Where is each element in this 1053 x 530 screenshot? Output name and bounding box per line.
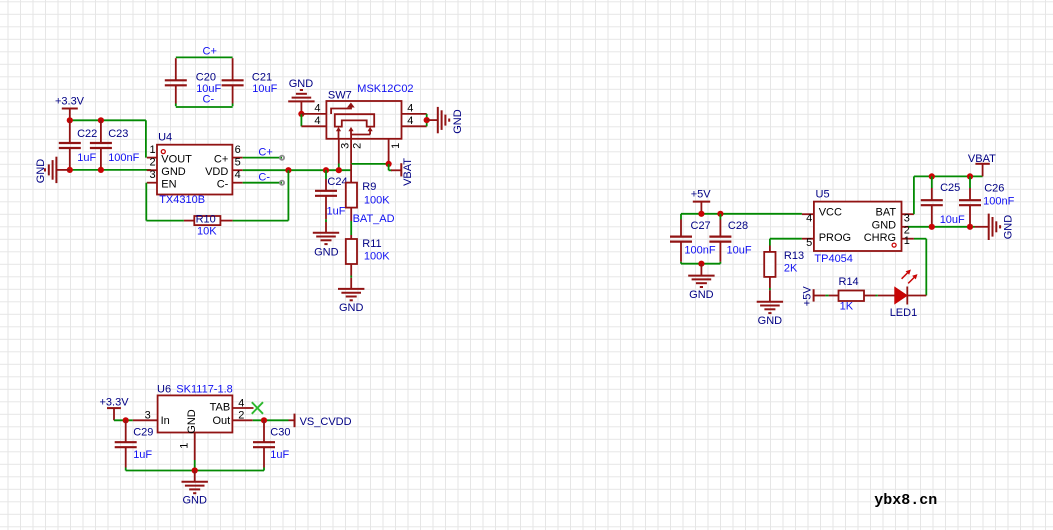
open wire end xyxy=(280,181,284,185)
capacitor C22 leads xyxy=(69,120,71,170)
svg-text:R13: R13 xyxy=(784,250,804,262)
U6 pin 2 stub Out xyxy=(232,419,252,421)
capacitor C24 leads xyxy=(325,170,327,233)
wire GND rail to U4 pin2 xyxy=(70,169,151,171)
svg-text:C20: C20 xyxy=(196,72,216,84)
SW7 actuator line xyxy=(331,107,351,114)
U5 CHRG marker circle xyxy=(892,243,896,247)
svg-text:GND: GND xyxy=(289,78,314,90)
svg-text:U6: U6 xyxy=(157,383,171,395)
wire down to R10 right xyxy=(287,170,289,220)
power flag +5V rotated xyxy=(814,289,826,301)
SW7 contact tie bar xyxy=(351,134,370,136)
capacitor C26 leads xyxy=(969,176,971,226)
wire SW7 left pins tie xyxy=(300,114,302,126)
capacitor C27 xyxy=(670,237,692,242)
svg-text:BAT_AD: BAT_AD xyxy=(353,213,395,225)
capacitor C28 leads xyxy=(719,214,721,264)
U4 pin 2 stub xyxy=(147,169,157,171)
resistor R10 leads xyxy=(184,220,233,222)
svg-text:R9: R9 xyxy=(362,181,376,193)
SW7 right pin lower stub xyxy=(402,125,427,127)
wire R10 right to branch xyxy=(233,220,289,222)
wire C- bottom rail xyxy=(176,106,233,108)
wire tick +5V-R14 xyxy=(825,295,828,297)
capacitor C22 xyxy=(59,143,81,148)
svg-text:U4: U4 xyxy=(158,131,172,143)
junction C30 top xyxy=(261,417,267,423)
svg-text:ybx8.cn: ybx8.cn xyxy=(874,492,937,509)
svg-text:TX4310B: TX4310B xyxy=(159,194,205,206)
wire U5 GND rail xyxy=(909,226,975,228)
svg-text:1: 1 xyxy=(149,144,155,156)
svg-text:TAB: TAB xyxy=(210,402,231,414)
svg-text:VCC: VCC xyxy=(819,207,842,219)
wire CHRG out xyxy=(914,238,926,240)
svg-text:C+: C+ xyxy=(214,154,228,166)
svg-text:U5: U5 xyxy=(816,189,830,201)
U5 pin 1 stub xyxy=(902,238,914,240)
SW7 right pin upper stub xyxy=(402,113,427,115)
ground below U6 xyxy=(182,482,208,493)
svg-text:1uF: 1uF xyxy=(77,152,96,164)
svg-text:4: 4 xyxy=(314,115,320,127)
svg-text:GND: GND xyxy=(1002,215,1014,240)
ground symbol right of SW7 xyxy=(438,107,449,133)
resistor R9 bottom lead xyxy=(350,208,352,221)
svg-text:GND: GND xyxy=(452,109,464,134)
U4 pin 3 stub xyxy=(147,182,157,184)
svg-text:+5V: +5V xyxy=(802,286,814,307)
svg-text:VBAT: VBAT xyxy=(402,158,414,186)
svg-text:VBAT: VBAT xyxy=(968,153,996,165)
svg-text:C25: C25 xyxy=(940,182,960,194)
SW7 slider outline xyxy=(335,114,374,126)
ground below C24 xyxy=(313,233,339,244)
power flag +3.3V xyxy=(62,109,78,121)
U6 pin 4 stub TAB xyxy=(232,407,253,409)
capacitor C20 leads xyxy=(175,58,177,106)
svg-text:BAT: BAT xyxy=(876,207,897,219)
net flag VS_CVDD xyxy=(289,414,295,428)
switch SW7 body xyxy=(326,101,401,139)
capacitor C29 leads xyxy=(125,420,127,470)
svg-text:100nF: 100nF xyxy=(983,196,1014,208)
wire down to LED cathode xyxy=(925,239,927,296)
SW7 left pin upper stub xyxy=(301,113,326,115)
U4 pin 6 stub xyxy=(232,157,242,159)
op-amp U4 body xyxy=(157,145,232,195)
ground stem below U6 xyxy=(194,471,196,482)
wire SW7 pin3 to rail xyxy=(338,164,340,171)
wire down to U4 pin1 xyxy=(145,120,147,157)
svg-text:VS_CVDD: VS_CVDD xyxy=(300,416,352,428)
svg-text:R10: R10 xyxy=(196,214,216,226)
junction SW7 right GND xyxy=(424,117,430,123)
svg-text:GND: GND xyxy=(314,246,339,258)
junction C26 top xyxy=(967,173,973,179)
svg-text:C-: C- xyxy=(258,171,270,183)
svg-text:100K: 100K xyxy=(364,251,390,263)
junction SW7 pin3 / rail xyxy=(336,167,342,173)
svg-text:10uF: 10uF xyxy=(940,214,965,226)
svg-text:4: 4 xyxy=(314,103,320,115)
svg-text:In: In xyxy=(161,415,170,427)
LED1 triangle xyxy=(895,287,907,303)
svg-text:100K: 100K xyxy=(364,195,390,207)
svg-text:1: 1 xyxy=(179,443,191,449)
capacitor C20 xyxy=(165,80,187,85)
svg-text:4: 4 xyxy=(235,169,241,181)
svg-text:VOUT: VOUT xyxy=(161,154,192,166)
resistor R13 bottom lead xyxy=(769,277,771,302)
junction GND below caps xyxy=(698,261,704,267)
power flag +3.3V at U6 xyxy=(107,408,121,420)
ground stem below C27/C28 xyxy=(700,264,702,276)
wire Out to VS_CVDD xyxy=(253,419,289,421)
wire PROG to R13 xyxy=(770,238,802,240)
capacitor C21 leads xyxy=(232,58,234,106)
svg-text:R11: R11 xyxy=(362,238,381,250)
SW7 pin 3 shaft xyxy=(338,139,340,164)
SW7 contact arrow 1 xyxy=(336,127,341,139)
svg-text:GND: GND xyxy=(182,494,207,506)
wire BAT_AD between R9 and R11 xyxy=(350,221,352,235)
ground stem right of U5 xyxy=(975,226,989,228)
svg-text:C23: C23 xyxy=(108,128,128,140)
wire +5V rail to U5 VCC xyxy=(681,213,802,215)
junction C25 bottom xyxy=(929,224,935,230)
junction U6 ground xyxy=(192,467,198,473)
capacitor C26 xyxy=(959,200,981,205)
svg-text:1uF: 1uF xyxy=(133,449,152,461)
resistor R11 bottom lead xyxy=(350,264,352,289)
ground below R13 xyxy=(757,302,783,313)
wire EN down xyxy=(145,183,147,221)
wire BAT up xyxy=(913,176,915,214)
U5 pin 5 stub xyxy=(802,238,814,240)
svg-text:10uF: 10uF xyxy=(727,245,752,257)
net flag VBAT stem xyxy=(389,163,402,176)
no-connect X on TAB xyxy=(252,402,263,414)
svg-text:1uF: 1uF xyxy=(327,205,346,217)
ground symbol right of U5 xyxy=(989,214,1000,240)
svg-text:+3.3V: +3.3V xyxy=(55,95,85,107)
svg-text:2: 2 xyxy=(352,143,364,149)
junction VDD/R10 branch xyxy=(285,167,291,173)
U5 pin 4 stub xyxy=(802,213,814,215)
svg-text:GND: GND xyxy=(161,166,186,178)
junction C29 top xyxy=(123,417,129,423)
U6 pin1 wire xyxy=(194,460,196,471)
wire tick R14-LED xyxy=(876,295,878,297)
svg-text:3: 3 xyxy=(904,212,910,224)
SW7 actuator arrowhead xyxy=(347,103,355,108)
svg-text:4: 4 xyxy=(407,103,413,115)
svg-text:1: 1 xyxy=(904,235,910,247)
SW7 contact arrow 2 xyxy=(348,127,353,135)
capacitor C27 leads xyxy=(680,214,682,264)
svg-text:TP4054: TP4054 xyxy=(814,253,853,265)
svg-text:2: 2 xyxy=(238,410,244,422)
svg-text:2: 2 xyxy=(149,156,155,168)
svg-text:100nF: 100nF xyxy=(108,152,139,164)
resistor R14 leads xyxy=(829,295,876,297)
svg-text:C24: C24 xyxy=(327,176,347,188)
svg-text:5: 5 xyxy=(235,156,241,168)
ground symbol above SW7 xyxy=(288,90,314,101)
U5 pin 3 stub xyxy=(902,213,914,215)
wire C+ from pin6 xyxy=(243,157,282,159)
svg-text:VDD: VDD xyxy=(205,166,228,178)
wire +3.3V rail to U4 xyxy=(70,119,146,121)
svg-text:C-: C- xyxy=(217,179,229,191)
U4 pin1 marker circle xyxy=(161,150,165,154)
junction C26 bottom xyxy=(967,224,973,230)
SW7 pin 1 shaft xyxy=(388,139,390,164)
wire +3.3V to U6 In xyxy=(114,419,133,421)
U6 pin 1 shaft xyxy=(194,433,196,461)
svg-text:2K: 2K xyxy=(784,263,798,275)
SW7 contact arrow 3 xyxy=(368,127,373,135)
junction C28 top xyxy=(717,211,723,217)
resistor R13 top lead xyxy=(769,239,771,252)
wire to R10 left xyxy=(146,220,184,222)
resistor R9 xyxy=(346,183,357,208)
wire SW7 pin2 to VBAT xyxy=(351,163,389,165)
LED1 cathode bar xyxy=(906,287,908,305)
junction C24 top xyxy=(323,167,329,173)
svg-text:GND: GND xyxy=(758,315,783,327)
svg-text:R14: R14 xyxy=(839,276,859,288)
svg-text:1: 1 xyxy=(390,143,402,149)
capacitor C29 xyxy=(115,442,137,447)
svg-text:GND: GND xyxy=(689,289,714,301)
wire SW7 right pins tie xyxy=(426,114,428,126)
svg-text:4: 4 xyxy=(806,213,812,225)
ground stem right of SW7 xyxy=(427,119,438,121)
resistor R11 top lead xyxy=(350,235,352,239)
wire C- from pin4 xyxy=(243,182,282,184)
IC U5 body xyxy=(814,202,902,251)
svg-text:100nF: 100nF xyxy=(684,245,715,257)
svg-text:6: 6 xyxy=(235,144,241,156)
junction +5V stem xyxy=(698,211,704,217)
U5 pin 2 stub xyxy=(902,226,909,228)
LED1 anode lead xyxy=(878,295,895,297)
LED1 emission arrow 1 xyxy=(902,270,911,279)
wire U6 ground rail xyxy=(126,470,264,472)
svg-text:+5V: +5V xyxy=(691,189,712,201)
power flag +5V xyxy=(693,202,710,214)
svg-text:1K: 1K xyxy=(840,300,854,312)
svg-text:C26: C26 xyxy=(984,183,1004,195)
LED1 cathode lead xyxy=(907,295,926,297)
capacitor C25 leads xyxy=(931,176,933,226)
resistor R9 top lead xyxy=(350,164,352,183)
junction SW7 left pins xyxy=(298,111,304,117)
svg-text:3: 3 xyxy=(339,143,351,149)
svg-text:4: 4 xyxy=(238,398,244,410)
svg-text:10K: 10K xyxy=(197,226,217,238)
svg-text:GND: GND xyxy=(339,302,364,314)
svg-text:Out: Out xyxy=(212,415,230,427)
svg-text:MSK12C02: MSK12C02 xyxy=(357,83,413,95)
resistor R11 xyxy=(346,239,357,264)
ground stem (left of C22) xyxy=(56,169,69,171)
capacitor C23 leads xyxy=(100,120,102,170)
wire C+ top rail xyxy=(176,56,233,58)
capacitor C21 xyxy=(222,80,244,85)
svg-text:GND: GND xyxy=(872,219,897,231)
svg-text:LED1: LED1 xyxy=(890,307,918,319)
resistor R13 xyxy=(764,252,775,277)
capacitor C25 xyxy=(921,200,943,205)
U4 pin 5 stub xyxy=(232,169,242,171)
svg-text:EN: EN xyxy=(161,179,176,191)
svg-text:C29: C29 xyxy=(133,426,153,438)
junction C25 top xyxy=(929,173,935,179)
ground stem above SW7 xyxy=(300,101,302,114)
svg-text:10uF: 10uF xyxy=(252,83,277,95)
IC U6 body xyxy=(158,395,233,432)
junction +3.3V/C22 xyxy=(67,117,73,123)
resistor R10 xyxy=(194,216,220,225)
junction C22 bottom / GND xyxy=(67,167,73,173)
svg-text:4: 4 xyxy=(407,115,413,127)
svg-text:C+: C+ xyxy=(258,147,272,159)
wire C27-C28 bottom tie xyxy=(681,263,720,265)
LED1 emission arrow 2 xyxy=(908,274,917,283)
svg-text:SW7: SW7 xyxy=(328,90,352,102)
wire VBAT top rail xyxy=(914,175,983,177)
ground below R11 xyxy=(338,289,364,300)
svg-text:GND: GND xyxy=(35,159,47,184)
svg-text:3: 3 xyxy=(145,410,151,422)
svg-text:C-: C- xyxy=(203,94,215,106)
net flag VBAT top xyxy=(975,164,989,177)
svg-text:5: 5 xyxy=(806,237,812,249)
capacitor C28 xyxy=(709,237,731,242)
svg-text:CHRG: CHRG xyxy=(864,232,896,244)
svg-text:3: 3 xyxy=(149,169,155,181)
resistor R14 xyxy=(839,291,865,302)
U4 pin 1 stub xyxy=(147,157,157,159)
svg-text:C21: C21 xyxy=(252,72,272,84)
junction VBAT / SW7 pin1 xyxy=(386,161,392,167)
svg-text:C28: C28 xyxy=(728,220,748,232)
U6 pin 3 stub In xyxy=(133,419,158,421)
svg-text:C27: C27 xyxy=(691,220,711,232)
ground symbol left xyxy=(45,157,56,183)
capacitor C30 leads xyxy=(263,420,265,470)
svg-text:C30: C30 xyxy=(270,426,290,438)
svg-text:+3.3V: +3.3V xyxy=(100,397,130,409)
svg-text:C22: C22 xyxy=(77,128,97,140)
wire VDD rail xyxy=(243,169,352,171)
ground below C27/C28 xyxy=(688,276,714,287)
junction C23 top xyxy=(98,117,104,123)
capacitor C30 xyxy=(253,442,275,447)
SW7 left pin lower stub xyxy=(301,125,326,127)
capacitor C24 xyxy=(315,191,337,196)
SW7 pin 2 shaft xyxy=(350,135,352,164)
svg-text:C+: C+ xyxy=(203,45,217,57)
junction C23 bottom xyxy=(98,167,104,173)
svg-text:SK1117-1.8: SK1117-1.8 xyxy=(176,383,232,395)
open wire end xyxy=(280,156,284,160)
U4 pin 4 stub xyxy=(232,182,242,184)
svg-text:PROG: PROG xyxy=(819,232,851,244)
capacitor C23 xyxy=(90,143,112,148)
svg-text:10uF: 10uF xyxy=(196,83,221,95)
svg-text:1uF: 1uF xyxy=(270,449,289,461)
svg-text:GND: GND xyxy=(186,409,198,434)
